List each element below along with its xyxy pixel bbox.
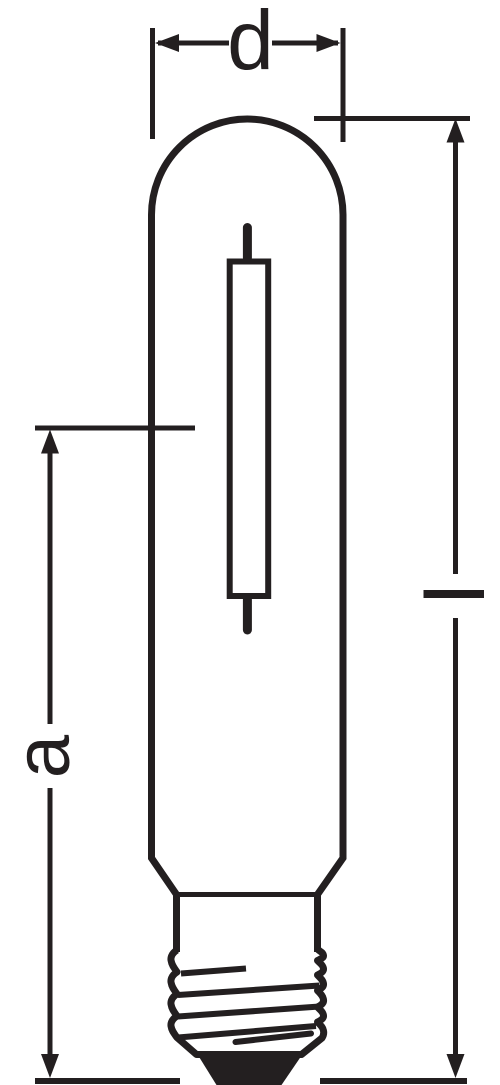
l dimension line lower segment: [453, 618, 458, 1058]
arc tube top wire: [243, 228, 252, 259]
thread line 3: [178, 1007, 320, 1017]
l dimension line upper segment: [453, 140, 458, 574]
a arrow up: [41, 430, 59, 454]
d arrow right: [317, 34, 341, 52]
arc tube bottom wire: [243, 600, 252, 631]
d dimension line left segment: [158, 41, 229, 46]
d dimension line right segment: [272, 41, 338, 46]
base contact tip: [196, 1052, 304, 1085]
baseline right segment: [320, 1078, 467, 1084]
l arrow down: [447, 1054, 465, 1078]
bulb glass outline: [152, 119, 344, 952]
d dimension left extension line: [150, 28, 155, 139]
a top extension line: [35, 426, 195, 431]
arc tube: [230, 262, 269, 597]
a dimension line upper segment: [48, 450, 53, 724]
neck shoulder line: [177, 892, 318, 897]
a arrow down: [41, 1054, 59, 1078]
d dimension right extension line: [341, 28, 346, 142]
thread line 2: [178, 986, 320, 996]
svg-text:d: d: [227, 0, 274, 87]
l top extension line: [314, 116, 470, 121]
a dimension line lower segment: [48, 788, 53, 1058]
thread line 4: [178, 1026, 316, 1038]
thread line 1: [181, 969, 246, 974]
label l (rotated, drawn as bar): [424, 590, 485, 598]
l arrow up: [447, 119, 465, 143]
d arrow left: [155, 34, 179, 52]
screw cap outline: [171, 949, 324, 1055]
svg-text:a: a: [0, 734, 86, 778]
baseline left segment: [35, 1078, 180, 1084]
thread line 5: [236, 1034, 312, 1043]
